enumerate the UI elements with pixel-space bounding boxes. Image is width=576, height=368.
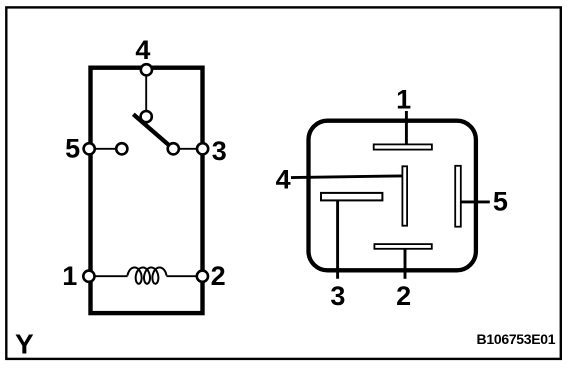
svg-text:1: 1	[396, 85, 411, 115]
svg-text:4: 4	[276, 165, 291, 195]
pin 2 terminal circle	[197, 271, 208, 282]
relay body outline (schematic view)	[91, 68, 203, 313]
svg-text:4: 4	[135, 35, 150, 65]
svg-text:2: 2	[211, 261, 226, 291]
wire from movable contact to pin 3	[179, 148, 198, 150]
svg-text:1: 1	[62, 261, 77, 291]
terminal slot 5	[455, 166, 461, 227]
pin 3 terminal circle	[197, 143, 208, 154]
connector body (pin face view)	[309, 121, 476, 271]
switch blade (movable arm)	[133, 114, 172, 147]
terminal slot 1	[374, 144, 432, 149]
switch pivot circle	[141, 111, 152, 122]
leader line terminal 1	[405, 111, 408, 147]
terminal slot 3	[321, 193, 382, 201]
leader line terminal 4	[291, 176, 402, 178]
svg-text:5: 5	[493, 186, 508, 216]
svg-text:3: 3	[330, 281, 345, 311]
pin 4 terminal circle	[141, 64, 152, 75]
leader line terminal 2	[404, 250, 407, 279]
terminal slot 2	[374, 244, 431, 249]
coil L (relay winding)	[128, 268, 167, 284]
wire from pin 5 to NO contact	[95, 148, 117, 150]
terminal slot 4	[402, 166, 407, 225]
pin 1 terminal circle	[83, 271, 94, 282]
svg-text:5: 5	[65, 133, 80, 163]
pin 5 terminal circle	[84, 143, 95, 154]
svg-text:Y: Y	[15, 328, 34, 359]
leader line terminal 3	[336, 201, 339, 279]
wire from pin 1 to coil	[94, 275, 127, 277]
svg-text:2: 2	[396, 281, 411, 311]
wire from coil to pin 2	[166, 275, 197, 277]
NO contact circle (pin 5 side)	[116, 143, 127, 154]
svg-text:3: 3	[212, 136, 227, 166]
svg-text:B106753E01: B106753E01	[477, 331, 556, 347]
movable contact circle	[168, 143, 179, 154]
leader line terminal 5	[462, 200, 490, 203]
wire from pin 4 to switch pivot	[145, 76, 147, 111]
